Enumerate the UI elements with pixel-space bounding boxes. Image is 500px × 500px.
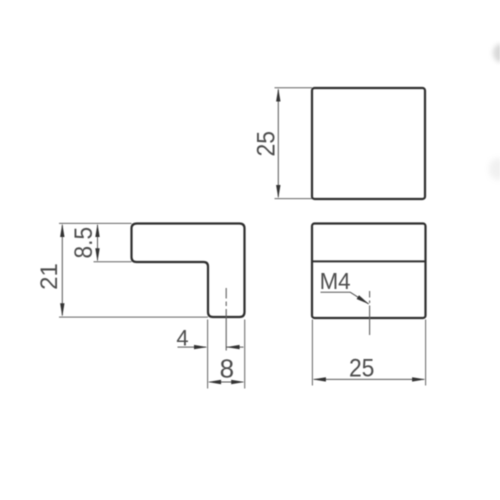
svg-text:25: 25 bbox=[349, 354, 375, 382]
dimension line 25 (front view) bbox=[313, 377, 426, 381]
extension line leg-left (side view) bbox=[207, 320, 209, 389]
svg-text:8.5: 8.5 bbox=[70, 227, 98, 259]
extension line left (front view) bbox=[311, 320, 313, 386]
extension line top (top view) bbox=[275, 87, 313, 89]
front view shoulder divider line bbox=[313, 260, 425, 262]
faint edge artifact upper right bbox=[493, 44, 500, 62]
dimension line 4 bbox=[178, 345, 244, 349]
dimension text 25 (top view) bbox=[252, 131, 280, 157]
extension line top (side view) bbox=[59, 222, 132, 224]
side view L-profile outline bbox=[132, 224, 245, 318]
svg-text:25: 25 bbox=[252, 131, 280, 157]
svg-text:8: 8 bbox=[220, 353, 234, 383]
svg-text:M4: M4 bbox=[320, 268, 351, 294]
front view rectangle outline bbox=[312, 224, 426, 319]
dimension line 8 bbox=[208, 380, 245, 384]
side view hole centerline bbox=[225, 288, 227, 351]
dimension line 25 (top view) bbox=[276, 88, 280, 198]
extension line right (front view) bbox=[425, 320, 427, 386]
extension line leg-right (side view) bbox=[244, 320, 246, 389]
dimension text 21 bbox=[36, 263, 63, 290]
front view hole centerline bbox=[369, 291, 371, 335]
extension line step 8.5 (side view) bbox=[94, 261, 132, 263]
dimension text 8.5 bbox=[70, 227, 98, 259]
dimension line 21 bbox=[60, 224, 64, 317]
extension line bottom (top view) bbox=[275, 198, 313, 200]
leader line M4 bbox=[321, 292, 370, 304]
top view square outline bbox=[312, 88, 425, 199]
extension line bottom (side view) bbox=[59, 316, 208, 318]
dimension line 8.5 bbox=[95, 224, 99, 262]
svg-text:21: 21 bbox=[36, 263, 63, 290]
faint edge artifact mid right bbox=[489, 158, 500, 180]
svg-text:4: 4 bbox=[176, 325, 188, 350]
